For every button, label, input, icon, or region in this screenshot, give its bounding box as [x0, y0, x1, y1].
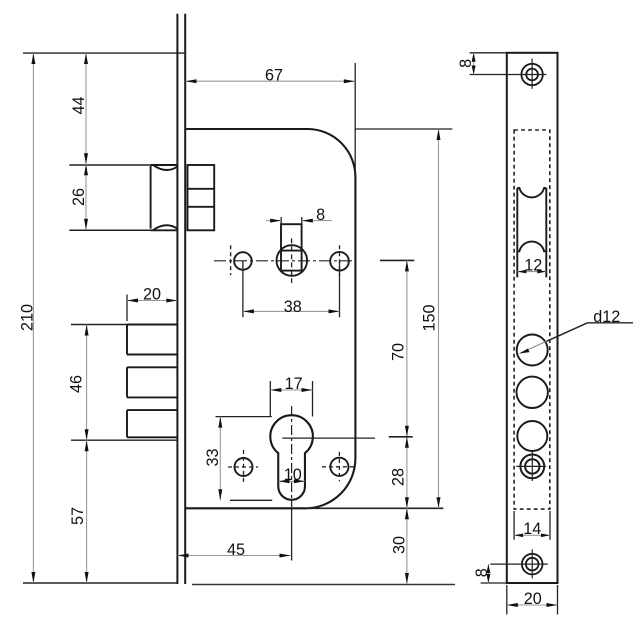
dimension 26: [70, 164, 88, 230]
svg-text:70: 70: [390, 343, 408, 361]
dimension 46: [68, 325, 89, 584]
d12 leader and label: [520, 308, 634, 354]
faceplate edge view (two vertical lines): [177, 14, 185, 584]
right mounting hole (top row): [330, 252, 349, 271]
bottom edge extension (left of plate): [481, 582, 507, 584]
faceplate middle screw: [516, 452, 546, 481]
right hole dashed centerline: [339, 245, 341, 276]
svg-text:d12: d12: [593, 308, 620, 326]
deadbolt prong 1: [127, 325, 177, 355]
svg-text:46: 46: [68, 375, 86, 393]
spindle square with slot above: [281, 224, 302, 270]
svg-text:210: 210: [19, 304, 37, 331]
dimension 20 (bottom): [507, 585, 558, 615]
dimension 17: [270, 375, 312, 417]
dimension 57: [69, 440, 89, 583]
cylinder vertical centerline dash-dot: [291, 406, 293, 500]
dimension 14: [514, 511, 550, 540]
dashed cutout rectangle: [514, 130, 550, 509]
svg-text:17: 17: [285, 375, 303, 393]
dimension 70: [390, 260, 409, 584]
extension line y=129 to 150-dim: [355, 128, 452, 130]
bottom-left mounting hole with dashed cross: [228, 450, 258, 483]
svg-text:150: 150: [421, 304, 439, 331]
bottom screw: [490, 549, 548, 578]
dimension 210: [19, 53, 37, 583]
svg-text:44: 44: [70, 96, 88, 114]
cylinder centerline solid to 45-dim: [291, 500, 293, 561]
38-dim extension from left hole: [242, 261, 244, 317]
spindle follower hole: circle: [277, 245, 308, 276]
bottom-left extension line y=583: [23, 582, 177, 584]
svg-text:33: 33: [204, 448, 222, 466]
top screw: [521, 59, 542, 89]
38-dim extension from right hole: [339, 261, 341, 317]
body bottom extension line to 150/28 dims: [305, 507, 443, 509]
spindle vertical dashed centerline: [291, 238, 293, 283]
svg-text:10: 10: [284, 466, 302, 484]
extension line under prongs (46/57 junction): [71, 439, 177, 441]
svg-text:26: 26: [70, 188, 88, 206]
faceplate hole 3: [517, 421, 547, 451]
bottom-right long extension line: [192, 584, 455, 586]
svg-text:8: 8: [457, 59, 475, 68]
extension line above prongs (46 top): [71, 324, 127, 326]
dimension 67: [186, 63, 356, 177]
top extension line y=53: [23, 52, 185, 54]
svg-text:30: 30: [391, 536, 409, 554]
dimension 10 (keyway): [279, 466, 305, 484]
line through top screw center: [470, 74, 547, 76]
dimension 45: [178, 541, 291, 559]
svg-text:28: 28: [390, 468, 408, 486]
latch opening in faceplate: [517, 188, 546, 277]
top edge extension to 8-dim: [470, 52, 507, 54]
faceplate hole 2: [517, 377, 548, 408]
latch bolt head: [151, 165, 178, 230]
svg-text:45: 45: [227, 541, 245, 559]
svg-text:8: 8: [473, 568, 491, 577]
latch extension lines: [69, 164, 150, 166]
left mounting hole (top row): [234, 252, 252, 270]
dimension 8 (spindle square): [266, 206, 332, 224]
extension line at spindle height for 70-dim: [380, 259, 414, 261]
extension line at cylinder height for 28-dim: [389, 436, 413, 438]
faceplate hole 1 (d12): [517, 335, 548, 366]
dimension 8 (bottom): [473, 564, 491, 583]
euro cylinder profile: [270, 415, 313, 500]
faceplate front outline: [507, 53, 558, 583]
dimension 28: [390, 437, 409, 509]
svg-text:20: 20: [143, 286, 161, 304]
latch bolt tail (3 segments): [188, 165, 215, 230]
dimension 38: [243, 298, 340, 316]
dimension 33: [204, 417, 272, 501]
svg-text:67: 67: [265, 66, 283, 84]
deadbolt prong 2: [127, 367, 177, 397]
svg-text:57: 57: [69, 507, 87, 525]
offset dashed vertical near left hole: [230, 245, 232, 275]
dimension 30: [391, 508, 409, 584]
deadbolt prong 3: [127, 410, 177, 437]
dimension 150: [421, 129, 441, 508]
svg-text:38: 38: [284, 298, 302, 316]
svg-text:12: 12: [524, 256, 542, 274]
lock body outline: [185, 129, 355, 508]
dimension 20 (prongs): [127, 286, 177, 322]
horizontal centerline through spindle row (dash-dot): [214, 260, 355, 262]
svg-text:20: 20: [524, 590, 542, 608]
bottom-right mounting hole with dashed cross: [322, 452, 355, 481]
horizontal line through cylinder center: [282, 437, 375, 439]
svg-text:8: 8: [316, 206, 325, 224]
dimension 8 (top): [457, 53, 475, 75]
dimension 44: [70, 53, 88, 230]
svg-text:14: 14: [523, 520, 541, 538]
dimension 12: [517, 256, 546, 274]
